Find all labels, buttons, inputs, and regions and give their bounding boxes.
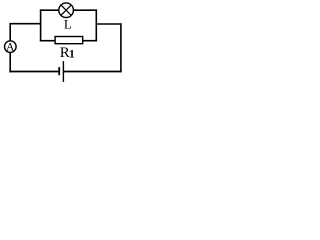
- battery cell: [59, 61, 63, 82]
- wire: right rail (step down to bottom wire): [120, 23, 122, 72]
- resistor R1: [55, 37, 83, 44]
- wire: left rail upper (step down to ammeter): [9, 23, 11, 41]
- wire: top wire right stub (lamp to right node): [73, 9, 97, 11]
- wire: right column vertical (x=96.3, top wire to resistor wire): [95, 9, 97, 41]
- wire: top wire left stub (node to lamp): [40, 9, 60, 11]
- wire: resistor branch left (node to resistor): [40, 40, 56, 42]
- wire: left rail lower (ammeter down to bottom wire): [9, 52, 11, 72]
- wire: left step horizontal (y=23.7): [10, 23, 42, 25]
- svg-text:1: 1: [69, 49, 75, 61]
- svg-text:L: L: [64, 17, 72, 32]
- lamp L: [59, 3, 74, 18]
- wire: left column vertical (x=40.6, top wire to resistor wire): [40, 9, 42, 41]
- wire: bottom wire left (to battery short bar): [9, 71, 58, 73]
- wire: resistor branch right (resistor to right node): [83, 40, 97, 42]
- wire: bottom wire right (battery long bar to right rail): [64, 71, 122, 73]
- wire: right step horizontal (y=24): [96, 23, 122, 25]
- label R1: [60, 45, 75, 61]
- ammeter A: [5, 41, 17, 54]
- background: [0, 0, 126, 84]
- svg-text:A: A: [6, 42, 15, 54]
